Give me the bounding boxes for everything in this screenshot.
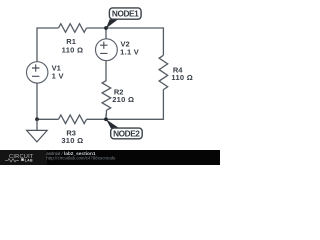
- watermark logo LAB: [21, 158, 24, 161]
- wire top: R1 to right corner: [87, 27, 164, 29]
- wire bottom: NODE2 junction to right corner: [106, 118, 163, 120]
- wire R2 bottom lead: [105, 110, 107, 120]
- node NODE1 box: [109, 8, 141, 19]
- wire V2 top lead: [105, 27, 107, 38]
- resistor R3: [59, 115, 87, 124]
- node NODE2 pointer: [106, 119, 120, 128]
- watermark logo zigzag: [5, 159, 19, 162]
- wire bottom: ground junction to R3: [37, 118, 59, 120]
- svg-text:1.1 V: 1.1 V: [120, 48, 139, 57]
- svg-text:210 Ω: 210 Ω: [112, 95, 134, 104]
- node NODE2 box: [111, 128, 143, 139]
- ground junction dot: [35, 117, 39, 121]
- voltage source V2: [96, 39, 118, 61]
- svg-text:1 V: 1 V: [52, 72, 64, 81]
- wire right vertical lower: [162, 90, 164, 120]
- svg-text:http://circuitlab.com/c4788xuc: http://circuitlab.com/c4788xucrsode: [46, 156, 116, 161]
- wire right vertical upper: [162, 27, 164, 55]
- wire left vertical upper: [36, 27, 38, 61]
- node NODE1 junction dot: [104, 26, 108, 30]
- wire bottom: R3 to NODE2 junction: [87, 118, 107, 120]
- resistor R2: [102, 81, 111, 111]
- resistor R4: [159, 55, 168, 89]
- ground: [27, 119, 48, 142]
- voltage source V1: [27, 62, 48, 83]
- node NODE2 junction dot: [104, 117, 108, 121]
- svg-text:110 Ω: 110 Ω: [62, 45, 84, 54]
- svg-text:110 Ω: 110 Ω: [171, 73, 193, 82]
- svg-text:LAB: LAB: [25, 158, 33, 162]
- svg-text:310 Ω: 310 Ω: [61, 136, 83, 145]
- svg-text:NODE2: NODE2: [113, 129, 140, 139]
- wire left vertical lower: [36, 83, 38, 120]
- node NODE1 pointer: [106, 19, 118, 28]
- wire V2 to R2: [105, 61, 107, 81]
- resistor R1: [59, 24, 87, 33]
- svg-text:NODE1: NODE1: [112, 9, 139, 19]
- watermark bar: [0, 150, 220, 165]
- watermark logo background: [0, 150, 47, 165]
- wire top: left corner to NODE1 junction: [37, 27, 59, 29]
